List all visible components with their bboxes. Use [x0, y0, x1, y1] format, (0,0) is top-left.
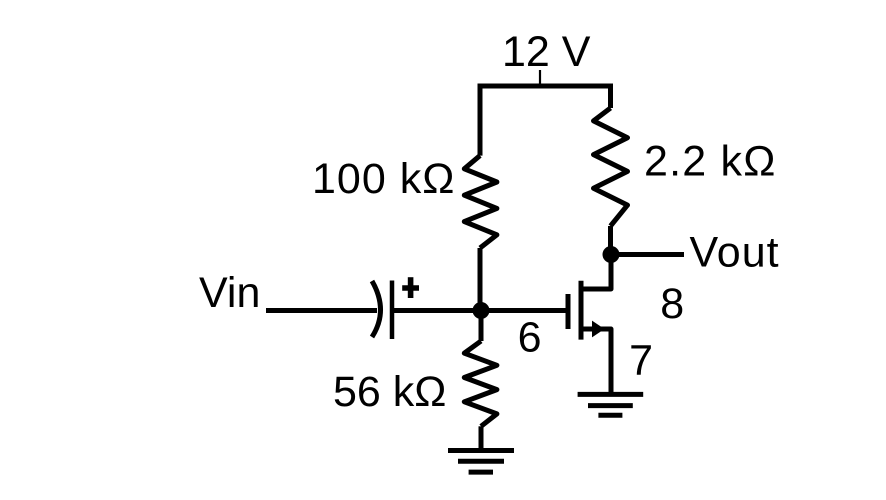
capacitor curved plate — [372, 281, 381, 337]
transistor source lead — [581, 329, 611, 392]
power rail 12 V with branch wires — [478, 84, 614, 156]
transistor channel bar — [579, 281, 584, 340]
svg-text:7: 7 — [629, 336, 653, 384]
svg-text:56 kΩ: 56 kΩ — [333, 368, 446, 416]
wire gate — [481, 308, 568, 313]
svg-text:8: 8 — [660, 280, 684, 328]
resistor 2.2 kΩ — [594, 108, 628, 226]
wire Vin — [266, 308, 377, 313]
wire — [479, 426, 484, 448]
svg-text:2.2 kΩ: 2.2 kΩ — [644, 137, 777, 185]
svg-text:Vout: Vout — [690, 229, 780, 277]
wire — [478, 248, 483, 311]
svg-text:100 kΩ: 100 kΩ — [312, 155, 455, 203]
ground (right) — [578, 394, 644, 415]
ground (left) — [448, 451, 514, 473]
resistor 100 kΩ — [464, 156, 497, 248]
svg-text:6: 6 — [518, 314, 542, 362]
node dot (gate node 6) — [473, 302, 490, 319]
transistor drain lead — [581, 255, 611, 290]
transistor source arrow — [592, 321, 605, 338]
svg-text:12 V: 12 V — [502, 28, 591, 76]
resistor 56 kΩ — [464, 341, 497, 426]
supply tick — [539, 70, 541, 86]
wire — [479, 311, 484, 342]
wire — [608, 226, 613, 255]
capacitor straight plate — [390, 281, 395, 340]
wire node 6 — [394, 308, 481, 313]
transistor gate bar — [566, 294, 571, 329]
node dot (Vout node 8) — [603, 246, 620, 263]
wire Vout — [611, 252, 684, 257]
svg-text:Vin: Vin — [199, 269, 260, 317]
capacitor polarity + — [402, 277, 419, 298]
